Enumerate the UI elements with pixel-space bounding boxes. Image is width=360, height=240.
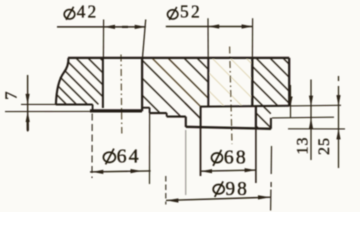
right hole left edge: [207, 58, 209, 106]
centerline of left hole: [120, 55, 123, 134]
phi42 label: [64, 2, 98, 22]
extension line phi64 right: [149, 113, 151, 184]
left curved edge: [56, 58, 69, 104]
notch right vertical: [255, 106, 257, 128]
phi98 label: [213, 179, 249, 200]
lip bottom (thick): [90, 109, 142, 112]
centerline of right hole: [230, 47, 232, 145]
hatching: lower-middle block left of notch: [185, 103, 200, 118]
phi52 label: [168, 2, 202, 22]
extension line phi98 right (segments): [270, 146, 272, 174]
right edge: [288, 58, 290, 106]
extension line plate bottom to right dims: [289, 104, 341, 107]
notch left vertical: [200, 106, 202, 127]
phi64 label: [103, 146, 140, 168]
svg-text:42: 42: [77, 2, 99, 22]
svg-text:64: 64: [117, 146, 141, 168]
phi98 dim: [166, 197, 270, 200]
part outline: [56, 58, 289, 129]
bottom of left flange: [56, 103, 93, 105]
plate bottom right portion: [200, 105, 289, 108]
small step right of lip: [143, 107, 150, 109]
hatching: block between the two holes: [142, 58, 208, 118]
flange left inner edge: [185, 117, 187, 127]
svg-text:7: 7: [1, 91, 20, 99]
top edge: [68, 57, 289, 59]
extension line flange bottom (dim 25): [288, 128, 345, 130]
phi42 dim: [57, 26, 146, 28]
flange right edge: [270, 118, 272, 129]
dimension lines with arrows: [26, 24, 341, 202]
left hole right edge: [141, 58, 143, 111]
13 dim: [310, 80, 312, 161]
extension line dim 7 upper: [21, 103, 57, 105]
svg-text:13: 13: [295, 137, 312, 155]
extension line phi42 left: [102, 20, 104, 58]
small arrow on 290.5 ext: [288, 97, 292, 107]
plate right edge extension with arrow: [290, 85, 292, 117]
phi64 dim: [90, 171, 151, 172]
phi68 dim: [201, 170, 256, 171]
svg-text:68: 68: [224, 146, 248, 168]
faint stray extension at flange left edge: [185, 130, 187, 195]
extension line phi68 left: [200, 128, 202, 177]
25 dim: [338, 86, 340, 168]
7 dim: [27, 75, 29, 132]
extension line phi52 right: [251, 18, 253, 57]
extension line phi42 right: [143, 20, 146, 58]
phi52 dim: [166, 26, 253, 28]
extension line phi52 left: [207, 18, 209, 57]
extension line phi64 left: [91, 114, 93, 179]
hatching: right block and lower-right block: [252, 58, 289, 129]
right hole right edge: [251, 58, 253, 106]
phi68 label: [212, 146, 248, 168]
hatching: left flange block: [57, 58, 103, 104]
extension line phi68 right: [255, 129, 257, 183]
flange bottom: [186, 127, 271, 129]
svg-text:52: 52: [180, 2, 202, 22]
svg-text:25: 25: [316, 137, 333, 155]
extension line step surface (dim 13): [272, 116, 334, 119]
step down to lip: [92, 104, 94, 111]
extension line phi98 left: [165, 176, 167, 205]
faint ghost hatch inside right hole: [209, 58, 252, 106]
svg-text:98: 98: [225, 179, 249, 200]
left hole left edge: [102, 58, 104, 108]
extension line dim 7 lower: [5, 110, 92, 112]
